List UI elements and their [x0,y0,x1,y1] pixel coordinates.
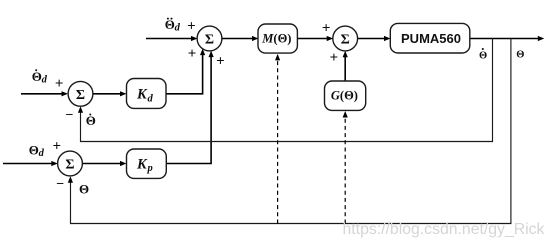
wire: acceleration input line [146,38,193,40]
svg-text:−: − [56,177,64,192]
svg-text:Θ: Θ [165,17,175,32]
wire: sum2 to PUMA560 [357,38,385,40]
wire: position feedback (theta) from output tap to sum4 [71,39,511,224]
svg-text:Σ: Σ [65,158,74,173]
block Kd [127,79,167,109]
wire: sum3 to Kd [93,93,122,95]
svg-text:Σ: Σ [76,88,85,103]
svg-text:PUMA560: PUMA560 [401,31,461,46]
wire: dashed parameter line into G(Theta) [344,117,346,224]
wire: dashed parameter line into M(Theta) [277,59,279,224]
wire: velocity input line [21,93,63,95]
svg-text:Θ: Θ [516,50,524,61]
svg-text:p: p [147,163,153,174]
wire: position input line [3,163,53,165]
svg-text:Θ: Θ [79,182,89,197]
svg-text:+: + [330,50,339,66]
svg-text:+: + [187,18,196,34]
block Kp [127,149,167,178]
summing junction S3 (velocity error) [68,81,93,106]
svg-text:K: K [136,156,148,172]
wire: PUMA560 output line [470,38,539,40]
summing junction S2 (torque) [333,26,358,51]
svg-text:https://blog.csdn.net/gy_Rick: https://blog.csdn.net/gy_Rick [343,221,545,238]
svg-text:d: d [42,75,48,86]
block G(Theta) gravity term [325,81,366,110]
wire: G(Theta) output up to sum2 [344,56,346,82]
svg-text:d: d [175,22,181,33]
svg-text:+: + [55,76,64,92]
svg-text:Θ: Θ [29,143,39,158]
svg-text:M(Θ): M(Θ) [261,32,291,46]
svg-text:K: K [136,87,148,103]
block M(Theta) inertia matrix [258,24,297,53]
summing junction S4 (position error) [58,151,83,176]
svg-text:d: d [148,93,154,104]
svg-text:+: + [322,21,331,37]
svg-text:G(Θ): G(Θ) [331,89,358,103]
svg-text:−: − [66,108,74,123]
summing junction S1 (top, acceleration) [197,26,222,51]
svg-text:+: + [53,139,62,155]
wire: sum1 to M(Theta) [222,38,254,40]
block PUMA560 robot plant [390,23,470,53]
svg-text:+: + [188,46,197,62]
svg-text:Σ: Σ [341,33,350,48]
svg-text:Σ: Σ [205,33,214,48]
svg-text:Θ: Θ [479,50,487,61]
svg-text:+: + [216,54,225,70]
wire: sum4 to Kp [83,163,122,165]
wire: Kd output up to sum1 [166,54,203,94]
svg-text:d: d [39,148,45,159]
wire: velocity feedback (theta-dot) from output tap to sum3 [81,39,493,142]
wire: Kp output up to sum1 [166,56,211,164]
wire: M(Theta) to sum2 [297,38,328,40]
